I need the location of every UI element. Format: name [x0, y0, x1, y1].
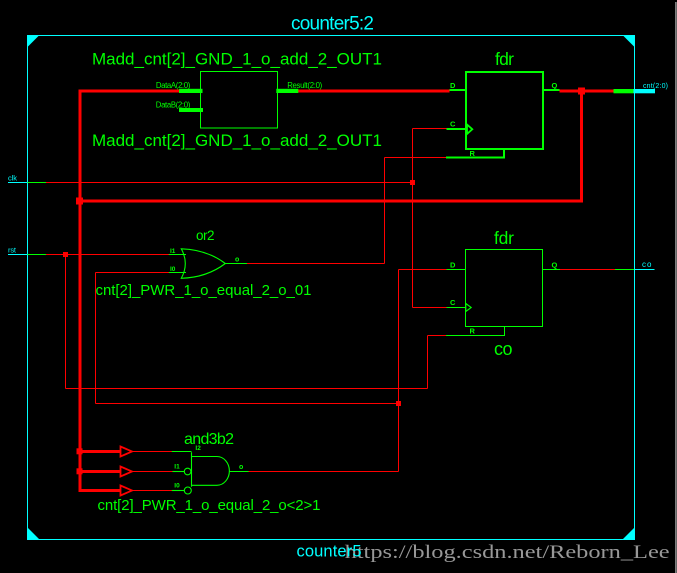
svg-text:o: o: [239, 464, 243, 471]
or2 I0 stub: [169, 272, 186, 274]
and3b2 gate: [172, 452, 249, 495]
svg-text:R: R: [470, 149, 476, 158]
svg-text:Result(2:0): Result(2:0): [287, 81, 322, 90]
or2 I1 stub: [169, 254, 186, 256]
wire bus to and3b2 I2: [80, 450, 121, 453]
wire or2 I0 vertical: [95, 273, 97, 404]
svg-text:https://blog.csdn.net/Reborn_L: https://blog.csdn.net/Reborn_Lee: [345, 542, 670, 563]
junction rst: [63, 252, 68, 257]
wire bottom fdr R lead: [428, 335, 446, 337]
pin R step: [446, 149, 504, 158]
svg-text:cnt(2:0): cnt(2:0): [643, 83, 668, 90]
adder Madd box: [201, 72, 278, 129]
svg-text:counter5: counter5: [297, 543, 362, 561]
inverter arrow I1: [121, 467, 133, 477]
rst external lead: [8, 254, 28, 256]
svg-text:or2: or2: [196, 228, 215, 243]
svg-text:cnt[2]_PWR_1_o_equal_2_o<2>1: cnt[2]_PWR_1_o_equal_2_o<2>1: [98, 497, 321, 514]
and3b2 I0 stub: [172, 490, 184, 492]
svg-text:I1: I1: [170, 248, 176, 255]
pin R step U2: [446, 327, 505, 336]
wire rst vertical down: [65, 255, 67, 389]
wire bus adder Result to fdr D: [296, 90, 450, 93]
svg-text:I1: I1: [174, 463, 180, 470]
wire and3b2 I2 thin: [132, 451, 172, 453]
wire to bottom fdr D: [399, 269, 447, 271]
inverter arrow I2: [121, 447, 133, 457]
wire and3b2 I1 thin: [132, 471, 173, 473]
svg-text:I0: I0: [174, 483, 180, 490]
and3b2 I0 bubble: [184, 487, 191, 494]
wire to bottom fdr C: [413, 306, 447, 308]
clk external lead: [8, 183, 46, 255]
pin Q stub: [543, 89, 559, 91]
and3b2 I2 stub: [172, 451, 192, 453]
and3b2 I1 bubble: [184, 468, 191, 475]
clock triangle U1: [467, 125, 472, 135]
svg-text:D: D: [450, 261, 456, 270]
wire equal net vertical to bottom fdr D: [398, 270, 400, 472]
wire bus fdr Q to cnt output: [560, 90, 614, 93]
gray screen edge line: [675, 2, 677, 573]
inverter arrow I0: [121, 486, 133, 496]
pin DataB(2:0) bar: [179, 108, 203, 112]
pin D stub: [450, 89, 466, 91]
pin DataA(2:0) bar: [179, 89, 203, 93]
pin C stub: [447, 128, 466, 130]
svg-text:o: o: [235, 257, 239, 264]
wire rst horizontal: [46, 254, 169, 256]
co output cyan lead: [634, 269, 654, 271]
svg-text:C: C: [450, 298, 456, 307]
wire bottom fdr Q out: [560, 269, 615, 271]
fdr U1 box (selected, thick): [446, 72, 560, 158]
svg-text:fdr: fdr: [495, 49, 514, 69]
junction equal net: [396, 401, 401, 406]
svg-text:Madd_cnt[2]_GND_1_o_add_2_OUT1: Madd_cnt[2]_GND_1_o_add_2_OUT1: [92, 49, 382, 68]
svg-text:I0: I0: [170, 266, 176, 273]
junction Q-feedback: [578, 88, 585, 95]
wire bus to and3b2 I1: [80, 470, 121, 473]
wire or2 I0 horizontal: [96, 272, 169, 274]
svg-text:I2: I2: [195, 445, 201, 452]
corner marker top-right: [623, 35, 635, 47]
svg-text:R: R: [470, 327, 476, 336]
wire riser to bottom fdr R: [427, 336, 429, 389]
svg-text:fdr: fdr: [494, 228, 514, 248]
cnt(2:0) output cyan bar: [634, 89, 656, 93]
junction clk: [410, 180, 415, 185]
wire rst to bottom fdr R horizontal: [66, 388, 428, 390]
pin C stub U2: [447, 306, 466, 308]
junction bus I2: [77, 448, 83, 454]
wire and3b2 output: [249, 471, 399, 473]
pin Result(2:0) bar: [276, 89, 298, 93]
fdr U2 box: [446, 250, 560, 336]
svg-text:and3b2: and3b2: [184, 431, 234, 448]
corner marker top-left: [28, 35, 40, 47]
and3b2 output stub: [229, 471, 248, 473]
wire clk horizontal: [46, 182, 413, 184]
svg-text:counter5:2: counter5:2: [291, 13, 374, 34]
or2 output stub: [225, 263, 247, 265]
svg-text:Madd_cnt[2]_GND_1_o_add_2_OUT1: Madd_cnt[2]_GND_1_o_add_2_OUT1: [92, 131, 382, 150]
wire cnt bus: vertical feedback x=80: [78, 91, 614, 490]
co output green lead: [615, 269, 634, 271]
svg-text:DataA(2:0): DataA(2:0): [156, 81, 191, 90]
svg-text:cnt[2]_PWR_1_o_equal_2_o_01: cnt[2]_PWR_1_o_equal_2_o_01: [96, 282, 312, 299]
clock triangle U2: [466, 304, 471, 312]
pin Q stub U2: [542, 269, 560, 271]
wire to top fdr C: [413, 128, 447, 130]
wire or2 output horizontal: [247, 263, 385, 265]
wire or2 output vertical to top fdr R: [384, 158, 386, 264]
svg-text:rst: rst: [8, 245, 17, 254]
svg-text:clk: clk: [8, 173, 17, 182]
wire equal net horizontal y=403.5: [96, 403, 399, 405]
cnt(2:0) output green bar: [614, 89, 634, 93]
junction bus y=201: [76, 198, 83, 205]
svg-text:C: C: [450, 119, 456, 128]
svg-text:co: co: [642, 260, 652, 269]
or2 gate: [169, 249, 247, 278]
svg-text:Q: Q: [552, 81, 558, 90]
border frame: [28, 36, 635, 540]
wire to top fdr R lead: [385, 157, 446, 159]
and3b2 I1 stub: [173, 471, 185, 473]
junction bus I1: [77, 468, 83, 474]
wire cnt bus: horizontal y=201 feedback: [78, 91, 582, 201]
thin red wires: [46, 129, 615, 491]
wire clk vertical to both C pins: [412, 129, 414, 308]
wire and3b2 I0 thin: [132, 490, 172, 492]
svg-text:Q: Q: [552, 261, 558, 270]
svg-text:DataB(2:0): DataB(2:0): [156, 101, 191, 110]
corner marker bottom-left: [28, 528, 40, 540]
svg-text:D: D: [450, 81, 456, 90]
corner marker bottom-right: [623, 528, 635, 540]
pin D stub U2: [447, 269, 465, 271]
svg-text:co: co: [494, 339, 513, 359]
